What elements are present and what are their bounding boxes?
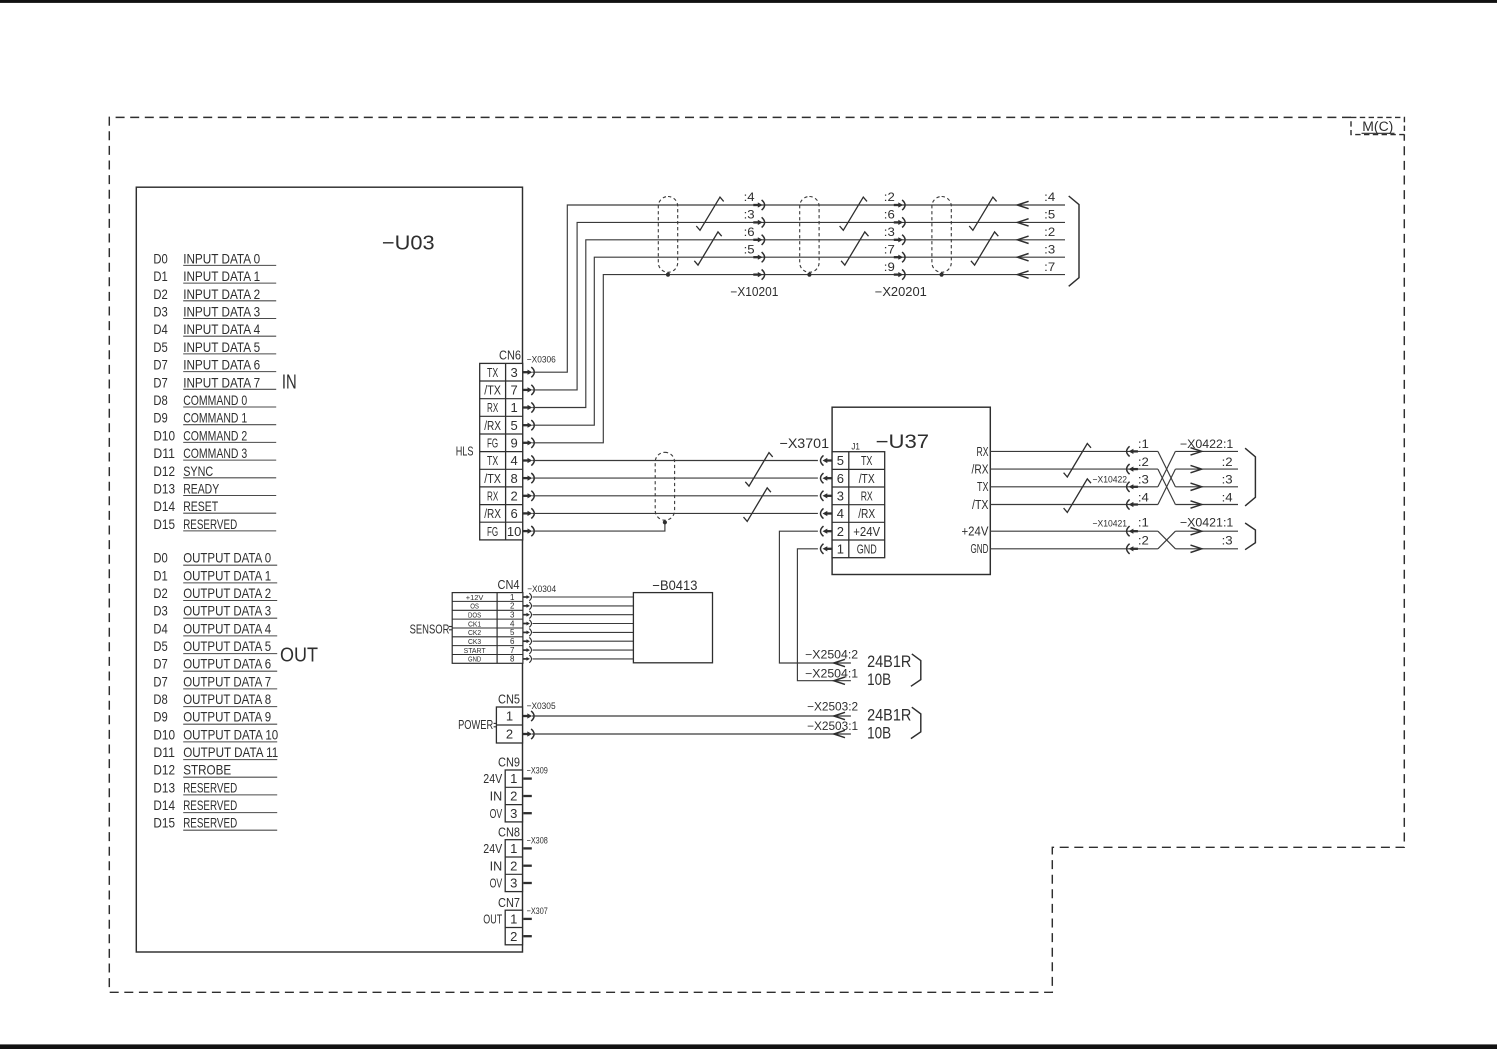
svg-text:OUTPUT DATA 3: OUTPUT DATA 3 bbox=[183, 603, 271, 619]
svg-text::5: :5 bbox=[1044, 208, 1055, 222]
svg-text:2: 2 bbox=[510, 602, 515, 611]
svg-text:−U37: −U37 bbox=[876, 431, 930, 453]
wire to X0421 pin 1 bbox=[1175, 530, 1238, 532]
svg-text:4: 4 bbox=[837, 506, 844, 521]
svg-text:OUTPUT DATA 2: OUTPUT DATA 2 bbox=[183, 585, 271, 601]
svg-text:INPUT DATA 2: INPUT DATA 2 bbox=[183, 286, 260, 302]
wire CN6 pin 6 to J1 bbox=[532, 512, 818, 514]
svg-text:INPUT DATA 0: INPUT DATA 0 bbox=[183, 250, 260, 266]
wire CN4 pin 1 to B0413 bbox=[533, 596, 634, 598]
svg-text:−X0304: −X0304 bbox=[527, 584, 556, 595]
svg-text:OV: OV bbox=[490, 876, 503, 891]
svg-text:3: 3 bbox=[510, 806, 517, 821]
svg-text:6: 6 bbox=[510, 637, 515, 646]
svg-text:24B1R: 24B1R bbox=[867, 653, 911, 671]
svg-text::3: :3 bbox=[1138, 473, 1149, 487]
svg-text:OUTPUT DATA 7: OUTPUT DATA 7 bbox=[183, 673, 271, 689]
cable shield oval HLS bbox=[655, 452, 674, 520]
svg-text:RESET: RESET bbox=[183, 498, 218, 514]
wire CN5 pin1 to X2503:2 bbox=[532, 715, 851, 717]
svg-text:DOS: DOS bbox=[468, 611, 481, 620]
wire CN4 pin 2 to B0413 bbox=[533, 605, 634, 607]
svg-text:1: 1 bbox=[510, 771, 517, 786]
svg-text:GND: GND bbox=[971, 541, 989, 556]
svg-text:D12: D12 bbox=[153, 762, 175, 778]
svg-text:CN8: CN8 bbox=[498, 824, 520, 839]
svg-text::2: :2 bbox=[1044, 225, 1055, 239]
wire CN4 pin 5 to B0413 bbox=[533, 631, 634, 633]
svg-text:3: 3 bbox=[510, 365, 517, 380]
svg-text:24V: 24V bbox=[483, 771, 502, 786]
svg-text:D5: D5 bbox=[153, 339, 168, 355]
svg-text:CK3: CK3 bbox=[468, 637, 481, 646]
svg-text:/RX: /RX bbox=[858, 506, 875, 521]
svg-text:CN6: CN6 bbox=[499, 348, 521, 363]
connector X10422 contact 4 bbox=[1132, 503, 1138, 505]
svg-text::3: :3 bbox=[1222, 473, 1233, 487]
svg-text:−X2503:2: −X2503:2 bbox=[807, 702, 858, 714]
svg-text::7: :7 bbox=[884, 242, 895, 256]
svg-text:OUTPUT DATA 11: OUTPUT DATA 11 bbox=[183, 744, 278, 760]
svg-text:SYNC: SYNC bbox=[183, 463, 213, 479]
svg-text:D12: D12 bbox=[153, 463, 175, 479]
svg-text:D7: D7 bbox=[153, 656, 168, 672]
svg-text:−X3701: −X3701 bbox=[780, 435, 830, 451]
svg-text:D3: D3 bbox=[153, 603, 168, 619]
twisted pair mark group1 TX pair bbox=[696, 197, 723, 230]
svg-text:READY: READY bbox=[183, 481, 219, 497]
svg-text:D9: D9 bbox=[153, 709, 168, 725]
svg-text:10: 10 bbox=[507, 524, 521, 539]
svg-text:+24V: +24V bbox=[853, 524, 880, 539]
svg-text:INPUT DATA 7: INPUT DATA 7 bbox=[183, 374, 260, 390]
connector X10422 contact 2 bbox=[1132, 468, 1138, 470]
svg-text:COMMAND 0: COMMAND 0 bbox=[183, 392, 247, 408]
svg-text:STROBE: STROBE bbox=[183, 762, 231, 778]
svg-text:D7: D7 bbox=[153, 374, 168, 390]
svg-text:9: 9 bbox=[510, 436, 517, 451]
shield HLS drain junction bbox=[663, 520, 667, 524]
svg-text:TX: TX bbox=[861, 453, 873, 468]
connector X10421 contact 2 bbox=[1132, 548, 1138, 550]
twisted pair mark HLS RX pair bbox=[744, 488, 771, 522]
top border bar bbox=[0, 0, 1497, 3]
svg-text:−B0413: −B0413 bbox=[652, 578, 697, 593]
svg-text:CN5: CN5 bbox=[498, 692, 520, 707]
svg-text:D3: D3 bbox=[153, 304, 168, 320]
connector X10422 contact 3 bbox=[1132, 486, 1138, 488]
wire CN6 pin 7 riser bbox=[532, 222, 1065, 390]
svg-text::2: :2 bbox=[884, 190, 895, 204]
svg-text:COMMAND 1: COMMAND 1 bbox=[183, 410, 247, 426]
svg-text::9: :9 bbox=[884, 260, 895, 274]
wire J1 pin2 +24V to X2504:2 bbox=[779, 531, 851, 663]
svg-text:D15: D15 bbox=[153, 516, 175, 532]
twisted pair mark group3 pair b bbox=[971, 232, 998, 265]
svg-text:CK2: CK2 bbox=[468, 628, 481, 637]
svg-text:INPUT DATA 4: INPUT DATA 4 bbox=[183, 321, 260, 337]
svg-text:OUTPUT DATA 10: OUTPUT DATA 10 bbox=[183, 726, 278, 742]
svg-text::6: :6 bbox=[744, 225, 755, 239]
svg-text:COMMAND 3: COMMAND 3 bbox=[183, 445, 247, 461]
right end contact wire 2 bbox=[1017, 219, 1028, 226]
svg-text:FG: FG bbox=[487, 436, 498, 451]
svg-text:INPUT DATA 5: INPUT DATA 5 bbox=[183, 339, 260, 355]
svg-text:24V: 24V bbox=[483, 841, 502, 856]
twisted pair mark group2 pair b bbox=[841, 232, 868, 265]
svg-text:D13: D13 bbox=[153, 481, 175, 497]
wire CN6 pin 5 riser bbox=[532, 257, 1065, 425]
svg-text:D14: D14 bbox=[153, 797, 175, 813]
svg-text:1: 1 bbox=[510, 912, 517, 927]
svg-text:1: 1 bbox=[510, 400, 517, 415]
svg-text:3: 3 bbox=[510, 611, 515, 620]
wire U37 RX to X10422 bbox=[990, 450, 1158, 452]
svg-text:D1: D1 bbox=[153, 567, 168, 583]
svg-text:OUTPUT DATA 8: OUTPUT DATA 8 bbox=[183, 691, 271, 707]
svg-text::2: :2 bbox=[1222, 455, 1233, 469]
svg-text:/RX: /RX bbox=[972, 462, 989, 477]
svg-text:COMMAND 2: COMMAND 2 bbox=[183, 427, 247, 443]
svg-text:CN7: CN7 bbox=[498, 895, 520, 910]
svg-text:2: 2 bbox=[510, 789, 517, 804]
wire J1 pin1 GND to X2504:1 bbox=[797, 549, 851, 681]
POWER leader tick bbox=[494, 722, 497, 724]
wire CN4 pin 6 to B0413 bbox=[533, 640, 634, 642]
svg-text:10B: 10B bbox=[867, 725, 891, 743]
svg-text:J1: J1 bbox=[851, 441, 860, 452]
svg-text:D5: D5 bbox=[153, 638, 168, 654]
svg-text:CN4: CN4 bbox=[498, 577, 520, 592]
svg-text:/TX: /TX bbox=[859, 471, 875, 486]
svg-text:D7: D7 bbox=[153, 673, 168, 689]
svg-text:5: 5 bbox=[837, 453, 844, 468]
wire U37 /RX to X10422 bbox=[990, 468, 1158, 470]
svg-text:D0: D0 bbox=[153, 550, 168, 566]
wire to X0422 pin 1 bbox=[1175, 450, 1238, 452]
svg-text:IN: IN bbox=[490, 789, 503, 804]
svg-text::2: :2 bbox=[1138, 533, 1149, 547]
connector X10201 contact wire 5 bbox=[753, 273, 759, 275]
svg-text:D13: D13 bbox=[153, 779, 175, 795]
wire CN5 pin2 to X2503:1 bbox=[532, 733, 851, 735]
connector CN4 grid bbox=[452, 593, 523, 664]
svg-text:RESERVED: RESERVED bbox=[183, 516, 237, 532]
wire to X0422 pin 2 bbox=[1175, 468, 1238, 470]
bracket X2504 cable bbox=[911, 654, 921, 686]
svg-text:−X2504:2: −X2504:2 bbox=[805, 650, 858, 662]
right end contact wire 5 bbox=[1017, 271, 1028, 278]
cable shield oval 2 bbox=[800, 197, 819, 273]
svg-text:−X0306: −X0306 bbox=[527, 354, 556, 365]
wire CN4 pin 3 to B0413 bbox=[533, 614, 634, 616]
svg-text::4: :4 bbox=[1138, 490, 1149, 504]
svg-text:RX: RX bbox=[977, 444, 989, 459]
device U03 box bbox=[136, 187, 522, 952]
connector CN7 box bbox=[505, 910, 522, 945]
bracket X2503 cable bbox=[911, 707, 921, 738]
svg-text:/TX: /TX bbox=[484, 383, 501, 398]
twisted pair mark group1 RX pair bbox=[694, 232, 721, 265]
twisted pair mark U37 TX pair bbox=[1064, 479, 1091, 513]
bracket X0421 cable bbox=[1245, 523, 1255, 550]
svg-text:D9: D9 bbox=[153, 410, 168, 426]
svg-text:−X2503:1: −X2503:1 bbox=[807, 721, 858, 733]
connector X10422 contact 1 bbox=[1132, 450, 1138, 452]
svg-text:5: 5 bbox=[510, 628, 515, 637]
svg-text:D8: D8 bbox=[153, 392, 168, 408]
crossover wires 24V GND bbox=[1158, 531, 1176, 549]
svg-text:CN9: CN9 bbox=[498, 755, 520, 770]
svg-text:1: 1 bbox=[837, 542, 844, 557]
wire CN6 pin 2 to J1 bbox=[532, 495, 818, 497]
connector CN5 box bbox=[496, 707, 522, 743]
svg-text::2: :2 bbox=[1138, 455, 1149, 469]
svg-text:−X10201: −X10201 bbox=[730, 285, 778, 299]
svg-text:7: 7 bbox=[510, 646, 515, 655]
svg-text:FG: FG bbox=[487, 524, 498, 539]
wire CN6 pin 10 FG to shield bbox=[532, 522, 665, 531]
wire CN6 pin 4 to J1 bbox=[532, 460, 818, 462]
svg-text:4: 4 bbox=[510, 619, 515, 628]
svg-text:1: 1 bbox=[510, 841, 517, 856]
shield 3 drain junction bbox=[940, 273, 944, 277]
svg-text:OUTPUT DATA 9: OUTPUT DATA 9 bbox=[183, 709, 271, 725]
crossover wires 2-4 bbox=[1158, 469, 1176, 504]
svg-text::4: :4 bbox=[1222, 490, 1233, 504]
svg-text:−X308: −X308 bbox=[527, 835, 548, 846]
bracket X0422 cable bbox=[1245, 448, 1255, 506]
connector CN6 grid bbox=[480, 363, 523, 540]
wire CN4 pin 4 to B0413 bbox=[533, 623, 634, 625]
svg-text:OS: OS bbox=[470, 602, 479, 611]
svg-text:TX: TX bbox=[977, 479, 989, 494]
svg-text:D11: D11 bbox=[153, 744, 175, 760]
wire U37 +24V to X10421 bbox=[990, 530, 1158, 532]
svg-text:−X309: −X309 bbox=[527, 766, 548, 777]
svg-text:2: 2 bbox=[510, 858, 517, 873]
SENSOR leader tick bbox=[449, 626, 452, 628]
connector X10421 contact 1 bbox=[1132, 530, 1138, 532]
svg-text:INPUT DATA 1: INPUT DATA 1 bbox=[183, 268, 260, 284]
svg-text:D15: D15 bbox=[153, 815, 175, 831]
wire U37 GND to X10421 bbox=[990, 548, 1158, 550]
svg-text:8: 8 bbox=[510, 471, 517, 486]
svg-text:D7: D7 bbox=[153, 357, 168, 373]
svg-text:4: 4 bbox=[510, 453, 517, 468]
svg-text:2: 2 bbox=[506, 727, 513, 742]
wire U37 /TX to X10422 bbox=[990, 504, 1158, 506]
device B0413 box bbox=[633, 593, 712, 663]
svg-text:D8: D8 bbox=[153, 691, 168, 707]
shield 2 drain junction bbox=[807, 273, 811, 277]
svg-text:2: 2 bbox=[510, 929, 517, 944]
svg-text:RX: RX bbox=[861, 489, 873, 504]
svg-text:HLS: HLS bbox=[456, 444, 474, 459]
twisted pair mark group2 pair a bbox=[840, 197, 867, 230]
svg-text:D0: D0 bbox=[153, 250, 168, 266]
svg-text:D14: D14 bbox=[153, 498, 175, 514]
svg-text:OUTPUT DATA 4: OUTPUT DATA 4 bbox=[183, 620, 271, 636]
svg-text:3: 3 bbox=[510, 876, 517, 891]
svg-text:−U03: −U03 bbox=[382, 233, 435, 255]
twisted pair mark HLS TX pair bbox=[745, 453, 772, 487]
svg-text::3: :3 bbox=[884, 225, 895, 239]
svg-text:CK1: CK1 bbox=[468, 619, 481, 628]
svg-text:−X2504:1: −X2504:1 bbox=[805, 669, 858, 681]
svg-text:OUTPUT DATA 0: OUTPUT DATA 0 bbox=[183, 550, 271, 566]
svg-text:3: 3 bbox=[837, 489, 844, 504]
svg-text:−X0422:1: −X0422:1 bbox=[1180, 437, 1234, 451]
cable shield oval 1 bbox=[658, 197, 677, 273]
svg-text:SENSOR: SENSOR bbox=[410, 621, 450, 636]
svg-text:8: 8 bbox=[510, 655, 515, 664]
svg-text::6: :6 bbox=[884, 208, 895, 222]
svg-text:2: 2 bbox=[837, 524, 844, 539]
svg-text:10B: 10B bbox=[867, 671, 891, 689]
svg-text:D4: D4 bbox=[153, 620, 168, 636]
svg-text:RX: RX bbox=[487, 489, 498, 504]
svg-text::3: :3 bbox=[1222, 533, 1233, 547]
svg-text:OV: OV bbox=[490, 806, 503, 821]
right end contact wire 1 bbox=[1017, 201, 1028, 208]
svg-text:D2: D2 bbox=[153, 585, 168, 601]
svg-text::1: :1 bbox=[1138, 437, 1149, 451]
right end contact wire 4 bbox=[1017, 254, 1028, 261]
svg-text:OUTPUT DATA 5: OUTPUT DATA 5 bbox=[183, 638, 271, 654]
svg-text:D2: D2 bbox=[153, 286, 168, 302]
svg-text:OUTPUT DATA 1: OUTPUT DATA 1 bbox=[183, 567, 271, 583]
svg-text::4: :4 bbox=[744, 190, 755, 204]
svg-text:IN: IN bbox=[282, 371, 297, 393]
svg-text:D1: D1 bbox=[153, 268, 168, 284]
svg-text:+24V: +24V bbox=[962, 524, 989, 539]
svg-text:D11: D11 bbox=[153, 445, 175, 461]
svg-text:5: 5 bbox=[510, 418, 517, 433]
twisted pair mark group3 pair a bbox=[969, 197, 996, 230]
svg-text::3: :3 bbox=[744, 208, 755, 222]
wire to X0422 pin 4 bbox=[1175, 504, 1238, 506]
enclosure M(C) dashed border bbox=[109, 117, 1404, 992]
crossover wires 1-3 bbox=[1158, 451, 1176, 486]
svg-text:RESERVED: RESERVED bbox=[183, 779, 237, 795]
svg-text::5: :5 bbox=[744, 242, 755, 256]
svg-text:24B1R: 24B1R bbox=[867, 707, 911, 725]
svg-text:−X0305: −X0305 bbox=[527, 701, 556, 712]
svg-text:GND: GND bbox=[468, 655, 482, 664]
svg-text:+12V: +12V bbox=[466, 593, 485, 602]
wire to X0422 pin 3 bbox=[1175, 486, 1238, 488]
svg-text:IN: IN bbox=[490, 858, 503, 873]
right end contact wire 3 bbox=[1017, 236, 1028, 243]
svg-text:INPUT DATA 3: INPUT DATA 3 bbox=[183, 304, 260, 320]
M(C) label box bbox=[1351, 117, 1404, 134]
svg-text:/TX: /TX bbox=[972, 497, 989, 512]
wire U37 TX to X10422 bbox=[990, 486, 1158, 488]
svg-text:RX: RX bbox=[487, 400, 498, 415]
cable shield oval 3 bbox=[932, 197, 951, 273]
svg-text::7: :7 bbox=[1044, 260, 1055, 274]
wire CN6 pin 8 to J1 bbox=[532, 477, 818, 479]
wire CN6 pin 3 riser bbox=[532, 205, 1065, 372]
svg-text::4: :4 bbox=[1044, 190, 1055, 204]
svg-text:GND: GND bbox=[857, 542, 877, 557]
connector J1 grid bbox=[832, 452, 885, 558]
svg-text::1: :1 bbox=[1138, 516, 1149, 530]
right cable bracket top group bbox=[1069, 196, 1079, 286]
bottom border bar bbox=[0, 1044, 1497, 1049]
svg-text:−X307: −X307 bbox=[527, 906, 548, 917]
wire to X0421 pin 3 bbox=[1175, 548, 1238, 550]
svg-text:−X20201: −X20201 bbox=[875, 285, 927, 299]
svg-text:/RX: /RX bbox=[484, 506, 501, 521]
svg-text:TX: TX bbox=[487, 453, 498, 468]
svg-text:D10: D10 bbox=[153, 726, 175, 742]
svg-text:D10: D10 bbox=[153, 427, 175, 443]
svg-text:D4: D4 bbox=[153, 321, 168, 337]
svg-text:1: 1 bbox=[510, 593, 515, 602]
svg-text:OUT: OUT bbox=[280, 645, 318, 667]
connector CN8 box bbox=[505, 840, 522, 892]
svg-text:RESERVED: RESERVED bbox=[183, 797, 237, 813]
svg-text:6: 6 bbox=[510, 506, 517, 521]
svg-text:M(C): M(C) bbox=[1362, 119, 1393, 134]
device U37 box bbox=[832, 407, 990, 574]
svg-text:POWER: POWER bbox=[458, 717, 493, 732]
svg-text:6: 6 bbox=[837, 471, 844, 486]
svg-text:OUTPUT DATA 6: OUTPUT DATA 6 bbox=[183, 656, 271, 672]
wire CN4 pin 8 to B0413 bbox=[533, 658, 634, 660]
svg-text:OUT: OUT bbox=[483, 912, 502, 927]
connector CN9 box bbox=[505, 770, 522, 822]
svg-text:−X10421: −X10421 bbox=[1093, 518, 1128, 529]
svg-text:/RX: /RX bbox=[484, 418, 501, 433]
twisted pair mark U37 RX pair bbox=[1064, 444, 1091, 478]
svg-text:INPUT DATA 6: INPUT DATA 6 bbox=[183, 357, 260, 373]
wire CN6 pin 9 riser bbox=[532, 275, 1065, 443]
svg-text:TX: TX bbox=[487, 365, 498, 380]
svg-text:RESERVED: RESERVED bbox=[183, 815, 237, 831]
wire CN6 pin 1 riser bbox=[532, 240, 1065, 408]
svg-text:2: 2 bbox=[510, 489, 517, 504]
svg-text:/TX: /TX bbox=[484, 471, 501, 486]
wire CN4 pin 7 to B0413 bbox=[533, 649, 634, 651]
svg-text:START: START bbox=[464, 646, 486, 655]
svg-text:1: 1 bbox=[506, 709, 513, 724]
svg-text:−X10422: −X10422 bbox=[1093, 474, 1128, 485]
shield 1 drain junction bbox=[666, 273, 670, 277]
svg-text:−X0421:1: −X0421:1 bbox=[1180, 515, 1234, 529]
svg-text::3: :3 bbox=[1044, 242, 1055, 256]
svg-text:7: 7 bbox=[510, 383, 517, 398]
